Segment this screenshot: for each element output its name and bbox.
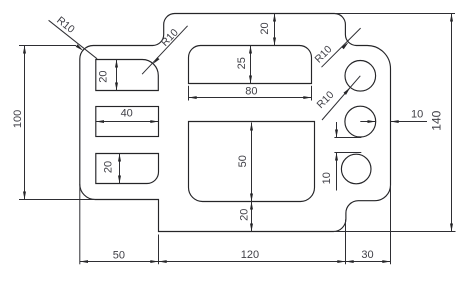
dim 140 extension top (334, 13, 455, 15)
dim 10 holes line lower (336, 153, 338, 191)
svg-text:120: 120 (241, 249, 259, 261)
arrow leader R10 notch (342, 42, 349, 49)
hole circle3 (341, 154, 371, 184)
hole circle1 (345, 61, 376, 92)
bottom dimension line (80, 261, 391, 263)
arrow dim10holes down (335, 130, 338, 138)
svg-text:10: 10 (321, 172, 333, 184)
arrow dim10right outer (391, 120, 399, 123)
dim 50 pocket line (251, 123, 253, 202)
arrow dim50 right (150, 260, 158, 263)
dim 20 top-step line (274, 14, 276, 46)
boss rect5 (80x25, rounded top corners) (189, 46, 312, 84)
arrow dim20step bottom (273, 38, 276, 46)
svg-text:20: 20 (238, 209, 250, 221)
dim 40 line (96, 121, 159, 123)
arrow dim140 top (450, 14, 453, 22)
pocket rect4 (80x50, rounded bottom corners) (189, 122, 315, 202)
arrow dim50pocket bottom (250, 194, 253, 202)
slot rect3 (20 high, rounded bottom-right) (96, 154, 159, 184)
arrow dim30 right (382, 260, 390, 263)
svg-text:20: 20 (98, 70, 110, 82)
svg-text:20: 20 (102, 161, 114, 173)
dim 20 slot3 line (119, 154, 121, 184)
slot rect2 (40 wide) (96, 107, 159, 137)
dim 50 extension left (79, 184, 81, 264)
arrow dim10holes up (335, 153, 338, 161)
svg-text:50: 50 (113, 249, 125, 261)
arrow dim20slot1 top (115, 60, 118, 68)
dim 20 slot1 line (116, 60, 118, 91)
svg-text:50: 50 (237, 155, 249, 167)
hole circle2 (345, 106, 376, 137)
svg-text:10: 10 (411, 109, 423, 121)
leader R10 slot1 corner (142, 26, 188, 74)
dim 30 extension right (390, 185, 392, 264)
svg-text:140: 140 (430, 110, 444, 130)
arrow dim50 left (80, 260, 88, 263)
arrow dim50pocket top (250, 123, 253, 131)
arrow dim20slot3 bottom (118, 176, 121, 184)
dim 25 line (250, 46, 252, 84)
leader R10 hole1 (322, 76, 360, 120)
arrow dim10right inner (368, 120, 376, 123)
slot rect1 (20 high, rounded top-right) (96, 60, 159, 91)
arrow dim40 right (150, 120, 158, 123)
arrow dim120 left (159, 260, 167, 263)
leader R10 top-left (49, 20, 98, 59)
dim 100 extension top (19, 45, 76, 47)
dim 80 line (189, 97, 312, 99)
svg-text:100: 100 (12, 110, 24, 128)
svg-text:80: 80 (245, 85, 257, 97)
arrow dim80 left (189, 96, 197, 99)
dim 50/120 extension middle (158, 235, 160, 265)
leader R10 top notch (322, 28, 361, 67)
dim 10 holes tick upper (334, 137, 361, 139)
dim 140 line (451, 14, 453, 232)
svg-text:40: 40 (121, 107, 133, 119)
arrow leader R10 slot1 (153, 57, 159, 64)
arrow dim40 left (96, 120, 104, 123)
svg-text:20: 20 (259, 22, 271, 34)
dim 20 pocket-bottom line (251, 202, 253, 232)
arrow dim20pocket bottom (250, 224, 253, 232)
arrow dim25 top (249, 46, 252, 54)
dim 10 holes line upper (336, 122, 338, 138)
svg-text:25: 25 (236, 57, 248, 69)
dim 120/30 extension (345, 220, 347, 265)
arrow dim20slot1 bottom (115, 83, 118, 91)
arrow dim120 right (337, 260, 345, 263)
arrow leader R10 hole1 (344, 87, 351, 95)
dim 80 extension left (188, 86, 190, 101)
arrow dim20pocket top (250, 202, 253, 210)
arrow dim30 left (346, 260, 354, 263)
arrow dim20step top (273, 14, 276, 22)
arrow dim20slot3 top (118, 154, 121, 162)
dim 10 right line outer (391, 121, 428, 123)
arrow dim80 right (303, 96, 311, 99)
dim 100 line (24, 46, 26, 200)
arrow dim25 bottom (249, 76, 252, 84)
arrow dim100 top (23, 46, 26, 54)
svg-text:30: 30 (361, 249, 373, 261)
arrow dim100 bottom (23, 192, 26, 200)
dim 140 extension bottom (334, 231, 456, 233)
dim 100 extension bottom (19, 199, 95, 201)
dim 10 holes tick lower (334, 152, 361, 154)
plate outline (80, 14, 391, 232)
arrow dim140 bottom (450, 224, 453, 232)
arrow leader R10 top-left (76, 44, 84, 51)
dim 80 extension right (311, 86, 313, 101)
dim 10 right line inner (360, 121, 375, 123)
